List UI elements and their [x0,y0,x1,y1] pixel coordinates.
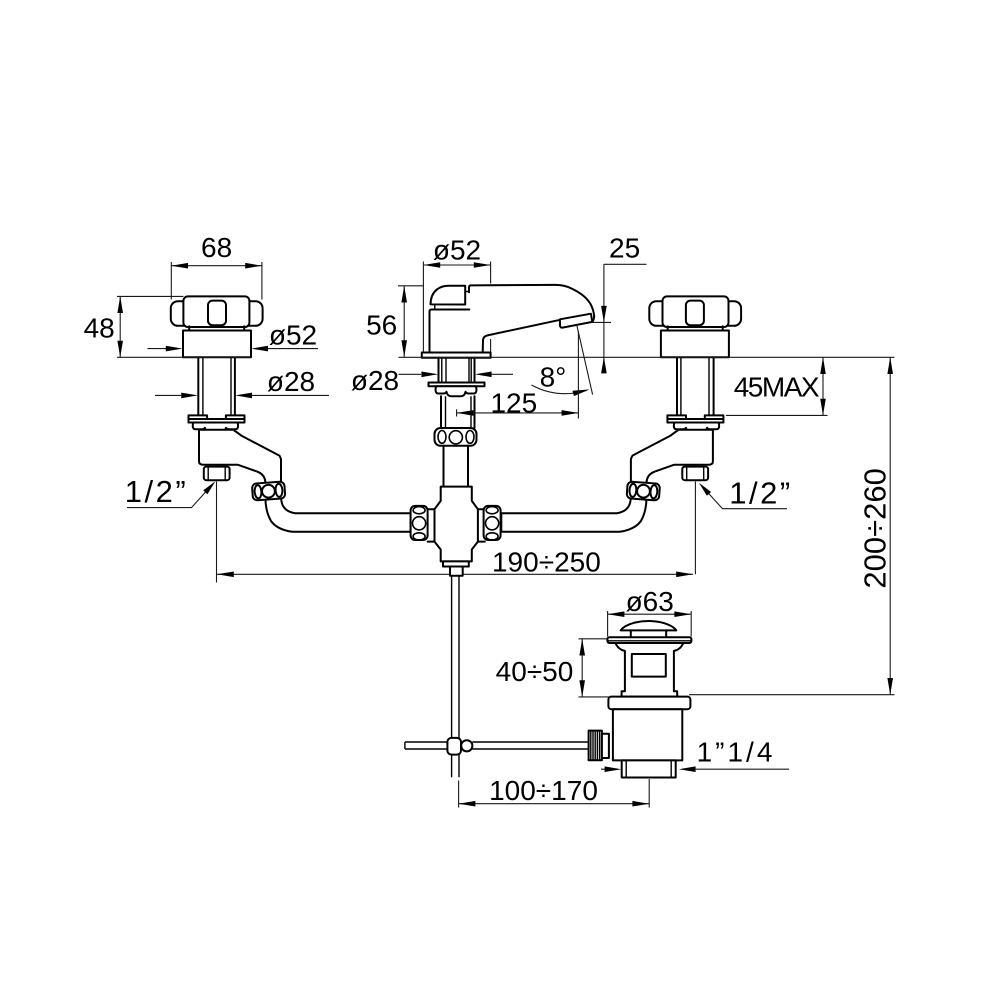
svg-text:190÷250: 190÷250 [492,547,601,578]
cross right nut [484,506,501,540]
center flange [429,383,485,387]
svg-text:40÷50: 40÷50 [496,656,574,687]
spout body left profile and shoulder [430,310,470,353]
dim 45MAX [726,357,828,415]
svg-text:1”1/4: 1”1/4 [697,737,776,768]
left handle flange tabs [189,415,245,419]
knurl ridges [591,731,600,761]
right arm nut [627,481,660,500]
dim center ø28 [351,365,513,396]
center stem outer [439,358,475,383]
center hex nut lobes [436,386,477,396]
cross fitting body [435,487,478,562]
spout aerator [560,314,592,328]
drain dome cap [621,621,677,630]
drain overflow window [632,654,666,677]
cross arm stubs [428,509,485,541]
spout underside [483,320,561,353]
spout horn outline [469,285,594,316]
left handle knob center band [183,296,249,327]
svg-text:ø52: ø52 [433,235,481,266]
right handle lock nut lobes [674,423,719,432]
left handle stem outer walls [198,357,235,415]
left handle skirt [183,331,251,358]
right handle skirt [661,331,729,358]
svg-text:100÷170: 100÷170 [489,775,598,806]
svg-text:1/2”: 1/2” [729,476,792,511]
center pipe inner walls [446,396,472,428]
drain shoulder plate [608,697,690,710]
dim left ø52 [148,320,319,352]
svg-text:68: 68 [201,232,232,263]
deck reference line left [117,356,251,358]
svg-text:200÷260: 200÷260 [858,468,893,588]
center round nut facets [438,431,474,444]
dim 125 [457,331,579,419]
drain outlet [622,760,676,777]
svg-text:125: 125 [490,388,537,419]
right handle knob center band [663,296,729,327]
left handle knob outer lobes [171,301,263,326]
dim 100÷170 [459,775,650,808]
right handle flange tabs [667,415,723,419]
dim 25 [593,233,647,374]
dim 8 degrees [532,326,593,396]
center round nut [435,428,477,446]
left supply extension line [216,482,218,583]
svg-text:ø52: ø52 [269,320,317,351]
dim left ø28 [155,366,329,398]
horizontal rod [405,742,589,749]
lower pipe to cross [444,446,469,487]
drain flange inner line [607,640,691,642]
dim 56 [366,286,424,357]
svg-text:ø28: ø28 [351,365,399,396]
left arm nut [252,481,285,500]
svg-text:25: 25 [609,233,640,264]
dim ø63 [608,586,692,637]
dim 1"1/4 [601,737,789,773]
drain neck [631,630,666,637]
right handle stem inner walls [681,357,709,415]
label left 1/2 inch [125,474,216,509]
left handle stem inner walls [203,357,231,415]
dim 200÷260 [689,357,895,694]
right elbow body with pipe to cross [501,430,713,532]
svg-text:56: 56 [366,310,397,341]
svg-text:45MAX: 45MAX [734,372,820,403]
dim 40÷50 [496,639,610,697]
left handle lock nut lobes [193,423,238,432]
right supply extension line [694,482,696,575]
svg-text:48: 48 [84,313,115,344]
drain lower body [613,709,682,760]
spout horn tip under edge [592,316,594,322]
left handle knob facet [208,301,226,326]
cross bottom nub [450,567,463,576]
cross bottom step [443,561,469,566]
left handle knob ticks [189,326,244,330]
knurl collar [602,734,609,758]
spout base plate [422,353,491,358]
left elbow body with pipe to cross [199,430,411,532]
rod collar joint [447,738,461,755]
svg-text:1/2”: 1/2” [125,474,188,509]
left handle flange bar [189,419,245,423]
center stem inner walls [442,358,471,383]
right handle knob facet [686,301,704,326]
cross left nut [411,506,428,540]
right handle flange bar [667,419,723,423]
spout cap wedge [431,286,466,305]
rod ball joint [461,740,472,751]
svg-text:8°: 8° [540,362,567,393]
right elbow thread tail lines [682,467,708,481]
vertical pop-up rod [452,576,459,778]
drain upper body [615,643,683,697]
dim top ø52 [423,235,490,353]
drain outlet walls [626,760,671,777]
right handle stem outer walls [677,357,714,415]
right handle knob ticks [668,326,723,330]
drain knurled adjuster [589,731,602,761]
svg-text:ø28: ø28 [267,366,315,397]
dim 190÷250 [217,547,693,578]
right handle knob outer lobes [649,301,741,326]
left elbow thread tail lines [204,467,230,481]
center pipe walls [441,396,475,428]
deck reference line right [399,356,895,358]
drain top flange [607,637,691,643]
spout cap seam tick [435,292,469,309]
dim 48 [84,296,184,357]
svg-text:ø63: ø63 [626,586,674,617]
dim 68 [171,232,262,300]
label right 1/2 inch [699,476,793,511]
